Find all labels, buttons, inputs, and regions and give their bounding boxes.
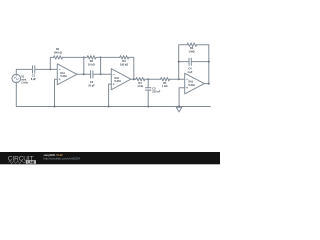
wire R3 to drop at OA2 output	[129, 57, 134, 79]
V1 minus mark	[16, 80, 17, 82]
node D junction dot	[100, 73, 102, 75]
wire node G down to C3	[147, 79, 149, 88]
wire node B drop to OA1 output	[83, 57, 85, 74]
wire C4 branch left	[179, 61, 189, 63]
node A junction dot	[49, 68, 51, 70]
wire node E drop to node D	[100, 57, 102, 74]
OA2 plus pin	[113, 83, 115, 85]
resistor R1	[54, 56, 63, 59]
node J junction dot	[208, 61, 210, 63]
wire OA1 output row	[77, 73, 91, 75]
svg-text:1 µF: 1 µF	[187, 71, 193, 74]
OA3 minus pin	[186, 78, 188, 80]
node K junction dot	[208, 83, 210, 85]
wire C3 to ground rail	[147, 90, 149, 106]
svg-text:10 µF: 10 µF	[88, 84, 95, 87]
svg-text:OA3: OA3	[188, 81, 193, 84]
svg-text:220 nF: 220 nF	[152, 91, 160, 94]
op-amp OA1	[57, 64, 77, 85]
svg-text:TL081: TL081	[188, 85, 195, 87]
svg-text:1 kΩ: 1 kΩ	[162, 85, 167, 88]
svg-text:sanpi930 / 9-12: sanpi930 / 9-12	[44, 153, 64, 157]
wire V1 top stub	[15, 69, 17, 74]
rail junction dot ground	[178, 106, 180, 108]
node G junction dot	[147, 78, 149, 80]
OA2 minus pin	[113, 73, 115, 75]
ground symbol	[176, 107, 182, 112]
node I junction dot	[178, 61, 180, 63]
wire C2 to OA2 input	[93, 73, 111, 75]
svg-text:100 kΩ: 100 kΩ	[54, 52, 62, 55]
wire OA1 plus stub down	[55, 79, 58, 106]
voltage source V1	[12, 74, 21, 83]
capacitor C1	[33, 66, 35, 73]
op-amp OA3	[185, 73, 205, 94]
wire R1 to node B	[63, 56, 84, 58]
resistor R6	[187, 43, 197, 46]
svg-text:8 µF: 8 µF	[31, 78, 37, 81]
wire R4 to node G	[145, 78, 161, 80]
V1 plus mark	[16, 75, 17, 76]
OA1 plus pin	[59, 78, 61, 80]
wire feedback rail left of OA3	[179, 45, 187, 80]
wire R2 to node E	[96, 56, 101, 58]
wire input row to C1	[16, 68, 32, 70]
capacitor C2	[91, 71, 93, 78]
wire ground rail	[16, 106, 210, 108]
capacitor C3	[145, 88, 151, 90]
rail junction dot OA2	[108, 106, 110, 108]
svg-text:TL081: TL081	[114, 81, 121, 83]
wire OA2 plus stub down	[109, 84, 112, 106]
wire OA3 plus stub to ground	[179, 88, 185, 107]
wire V1 bottom stub	[15, 83, 17, 107]
svg-text:1 kHz: 1 kHz	[21, 82, 28, 85]
wire feedback riser left	[50, 57, 53, 69]
node F junction dot	[133, 78, 135, 80]
resistor R5	[161, 78, 170, 81]
OA3 plus pin	[186, 87, 188, 89]
logo zigzag	[9, 161, 26, 164]
wire node A to OA1 inverting input	[50, 68, 57, 70]
svg-text:100 kΩ: 100 kΩ	[120, 63, 128, 66]
op-amp OA2	[111, 69, 131, 90]
logo LAB box	[26, 160, 36, 164]
svg-text:http://circuitlab.com/c/uh9292: http://circuitlab.com/c/uh92924	[44, 157, 81, 161]
wire C1 to node A	[35, 68, 51, 70]
wire node E to R3	[101, 56, 120, 58]
svg-text:1 kΩ: 1 kΩ	[137, 85, 142, 88]
wire OA2 output row	[131, 78, 136, 80]
node E junction dot	[100, 56, 102, 58]
svg-text:10 kΩ: 10 kΩ	[88, 63, 95, 66]
OA1 minus pin	[59, 68, 61, 70]
rail junction dot C3	[147, 106, 149, 108]
wire R6 to right rail	[197, 45, 209, 84]
node H junction dot	[178, 78, 180, 80]
node B junction dot	[83, 56, 85, 58]
svg-text:OA1: OA1	[60, 72, 65, 75]
footer watermark bar	[0, 152, 220, 164]
rail junction dot OA1	[54, 106, 56, 108]
node C junction dot	[83, 73, 85, 75]
resistor R3	[120, 56, 129, 59]
wire R5 to OA3 inverting input	[170, 78, 185, 80]
svg-text:LAB: LAB	[27, 160, 35, 164]
wire node B to R2	[84, 56, 87, 58]
resistor R4	[136, 78, 145, 81]
wire C4 branch right	[191, 61, 209, 63]
wire OA3 output stub	[204, 83, 209, 85]
svg-text:OA2: OA2	[114, 77, 119, 80]
V1 sine glyph	[14, 77, 18, 80]
svg-text:1 MΩ: 1 MΩ	[188, 51, 194, 54]
resistor R2	[87, 56, 96, 59]
capacitor C4	[189, 58, 191, 65]
svg-text:TL081: TL081	[60, 76, 67, 78]
